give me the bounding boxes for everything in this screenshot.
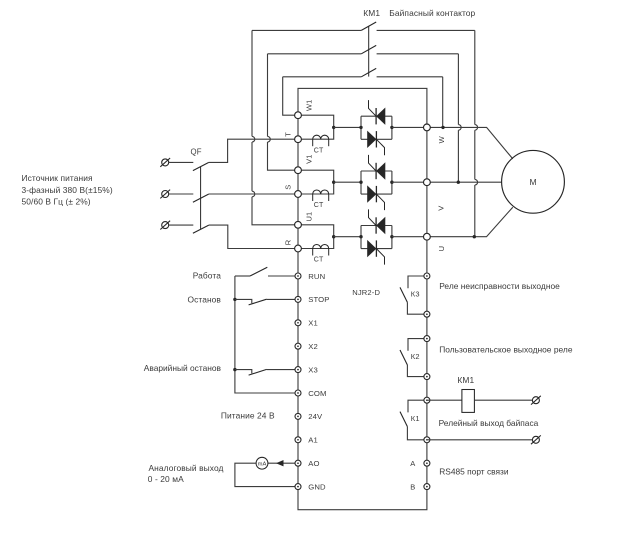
svg-text:CT: CT [314, 202, 324, 209]
thyristor (top, phase T) [375, 108, 377, 124]
wire thyristor block to output (phase S) [392, 181, 427, 183]
thyristor (bottom, phase R) [375, 240, 377, 256]
svg-text:Аварийный останов: Аварийный останов [144, 363, 222, 373]
wire KM1 bypass loop 1 top [252, 29, 475, 31]
terminal K1 bottom [424, 437, 430, 443]
svg-text:Источник питания: Источник питания [22, 173, 93, 183]
wire node to thyristor block (phase R) [334, 236, 361, 238]
junction node phase T CT join [332, 126, 335, 129]
svg-text:Аналоговый выход: Аналоговый выход [149, 463, 224, 473]
relay contact K1 [408, 400, 427, 412]
terminal K3 top [424, 273, 430, 279]
terminal V [424, 179, 431, 186]
contactor KM1 main contact 1 [361, 22, 376, 30]
wire QF pole 1 output to terminal T [209, 139, 298, 162]
terminal W1 [295, 112, 302, 119]
terminal A [424, 460, 430, 466]
svg-text:A: A [410, 459, 415, 468]
wire output U row to motor [427, 207, 513, 237]
terminal U1 [295, 221, 302, 228]
wire terminal S through CT to node [298, 182, 334, 194]
contactor KM1 main contact 3 [361, 68, 376, 76]
switch RUN (Работа), NO [235, 275, 250, 277]
wire QF pole 2 input [169, 193, 193, 195]
terminal AO [295, 460, 301, 466]
terminal 24V [295, 413, 301, 419]
terminal S [295, 191, 302, 198]
soft starter NJR2-D enclosure box [298, 88, 427, 509]
svg-text:Работа: Работа [193, 270, 221, 280]
svg-text:T: T [284, 132, 293, 137]
terminal K3 bottom [424, 311, 430, 317]
svg-text:QF: QF [191, 147, 202, 156]
thyristor (bottom, phase S) [375, 186, 377, 202]
wire KM1 coil to lug [474, 399, 532, 401]
svg-text:CT: CT [314, 257, 324, 264]
wire KM1 bypass loop 1 left edge (to terminal U1) [251, 30, 253, 136]
svg-text:3-фазный 380 В(±15%): 3-фазный 380 В(±15%) [22, 185, 113, 195]
wire terminal U1 to node (phase R) [298, 225, 334, 237]
svg-text:Питание 24 В: Питание 24 В [221, 410, 275, 420]
relay contact K3 [408, 276, 427, 288]
thyristor pair block (phase T) [361, 116, 392, 139]
terminal B [424, 484, 430, 490]
junction node phase R CT join [332, 235, 335, 238]
wire terminal R through CT to node [298, 237, 334, 249]
gate lead (top thyristor, phase R) [369, 209, 377, 225]
wire KM1 bypass loop 2 right edge (to output V node) [457, 54, 459, 125]
terminal U [424, 233, 431, 240]
svg-text:Останов: Останов [187, 294, 221, 304]
wire KM1 bypass loop 3 top [283, 76, 443, 78]
control bus wire (left) [235, 276, 298, 393]
terminal RUN [295, 273, 301, 279]
svg-text:RS485 порт связи: RS485 порт связи [439, 467, 509, 477]
contactor KM1 main contact 2 [361, 45, 376, 53]
terminal K2 bottom [424, 374, 430, 380]
svg-text:S: S [284, 185, 293, 190]
junction control bus at X3 [233, 368, 236, 371]
circuit breaker QF pole 2 blade [193, 194, 209, 202]
svg-text:24V: 24V [308, 412, 323, 421]
wire KM1 bypass loop 2 left edge (to terminal V1) [267, 54, 269, 137]
wire K1 bottom row to lug [427, 439, 533, 441]
svg-text:STOP: STOP [308, 295, 329, 304]
svg-text:U1: U1 [304, 212, 313, 222]
terminal K2 top [424, 336, 430, 342]
wire QF pole 2 output to terminal S [209, 193, 298, 195]
circuit breaker QF mechanical link [200, 167, 202, 229]
wire K1 to KM1 coil [427, 399, 462, 401]
switch X3 (Аварийный останов), NC [235, 370, 252, 374]
contactor KM1 mechanical link [368, 26, 370, 76]
svg-text:Пользовательское выходное реле: Пользовательское выходное реле [439, 345, 573, 355]
thyristor (top, phase S) [375, 163, 377, 179]
terminal COM [295, 390, 301, 396]
source cable lug L1 (Ø) [162, 159, 169, 166]
svg-text:К2: К2 [411, 352, 420, 361]
contactor coil KM1 [462, 390, 475, 413]
terminal T [295, 136, 302, 143]
svg-text:RUN: RUN [308, 272, 325, 281]
svg-text:R: R [284, 239, 293, 245]
wire thyristor block to output (phase R) [392, 236, 427, 238]
ammeter mA (analog output) [268, 462, 298, 464]
junction control bus at STOP [233, 298, 236, 301]
svg-text:К3: К3 [411, 290, 420, 299]
svg-text:50/60 В Гц (± 2%): 50/60 В Гц (± 2%) [22, 196, 91, 206]
gate lead (top thyristor, phase S) [369, 155, 377, 171]
svg-text:mA: mA [258, 461, 267, 467]
terminal X3 [295, 367, 301, 373]
switch STOP (Останов), NC [235, 299, 252, 303]
svg-text:M: M [529, 177, 536, 187]
svg-text:GND: GND [308, 482, 326, 491]
gate lead (bottom thyristor, phase S) [376, 194, 384, 210]
circuit breaker QF pole 3 blade [193, 225, 209, 233]
terminal R [295, 245, 302, 252]
svg-text:V1: V1 [304, 155, 313, 164]
wire output V row to motor [427, 181, 502, 183]
junction W bypass [441, 126, 444, 129]
circuit breaker QF pole 1 blade [193, 162, 209, 170]
svg-text:Байпасный контактор: Байпасный контактор [389, 8, 475, 18]
wire terminal T through CT to node [298, 127, 334, 139]
terminal GND [295, 484, 301, 490]
svg-text:COM: COM [308, 389, 326, 398]
gate lead (bottom thyristor, phase T) [376, 139, 384, 155]
svg-text:W1: W1 [304, 100, 313, 111]
wire node to thyristor block (phase S) [334, 181, 361, 183]
svg-text:A1: A1 [308, 436, 318, 445]
thyristor pair block (phase R) [361, 226, 392, 249]
current transformer CT (phase T) [313, 135, 329, 139]
svg-text:AO: AO [308, 459, 319, 468]
gate lead (top thyristor, phase T) [369, 100, 377, 116]
cable lug (bypass relay output, top) Ø [532, 397, 539, 404]
source cable lug L3 (Ø) [162, 222, 169, 229]
current transformer CT (phase R) [313, 245, 329, 249]
wire KM1 bypass loop 2 top [268, 53, 459, 55]
svg-text:К1: К1 [411, 414, 420, 423]
junction U bypass [473, 235, 476, 238]
svg-text:CT: CT [314, 147, 324, 154]
thyristor (top, phase R) [375, 217, 377, 233]
wire terminal V1 to node (phase S) [298, 170, 334, 182]
gate lead (bottom thyristor, phase R) [376, 249, 384, 265]
terminal X1 [295, 320, 301, 326]
svg-text:V: V [436, 206, 445, 211]
svg-text:Релейный выход байпаса: Релейный выход байпаса [439, 418, 539, 428]
terminal V1 [295, 167, 302, 174]
wire QF pole 3 input [169, 224, 193, 226]
terminal K1 top [424, 397, 430, 403]
current transformer CT (phase S) [313, 190, 329, 194]
svg-text:КМ1: КМ1 [363, 8, 380, 18]
wire terminal W1 to node (phase T) [298, 115, 334, 127]
svg-text:W: W [437, 135, 446, 143]
svg-text:B: B [410, 482, 415, 491]
wire KM1 bypass loop 1 right edge (to output U node) [474, 30, 476, 124]
thyristor (bottom, phase T) [375, 131, 377, 147]
motor M [502, 150, 565, 213]
wire KM1 bypass loop 3 right edge (to output W node) [442, 77, 444, 128]
terminal W [424, 124, 431, 131]
svg-text:X1: X1 [308, 319, 318, 328]
source cable lug L2 (Ø) [162, 191, 169, 198]
junction V bypass [457, 181, 460, 184]
svg-text:X2: X2 [308, 342, 318, 351]
wire KM1 bypass loop 3 left edge (to terminal W1) [283, 77, 298, 115]
junction node phase S CT join [332, 181, 335, 184]
terminal A1 [295, 437, 301, 443]
svg-text:Реле неисправности выходное: Реле неисправности выходное [439, 281, 560, 291]
wire QF pole 1 input [169, 161, 193, 163]
terminal STOP [295, 296, 301, 302]
wire ammeter to GND [235, 463, 298, 486]
wire thyristor block to output (phase T) [392, 126, 427, 128]
svg-text:0 - 20 мА: 0 - 20 мА [148, 474, 184, 484]
svg-text:X3: X3 [308, 365, 318, 374]
svg-text:NJR2-D: NJR2-D [352, 288, 380, 297]
wire node to thyristor block (phase T) [334, 126, 361, 128]
relay contact K2 [408, 339, 427, 351]
svg-text:U: U [437, 246, 446, 252]
wire output W row to motor [427, 127, 513, 158]
thyristor pair block (phase S) [361, 171, 392, 194]
wire QF pole 3 output to terminal R [209, 225, 298, 248]
svg-text:КМ1: КМ1 [457, 375, 474, 385]
terminal X2 [295, 343, 301, 349]
cable lug (bypass relay output, bottom) Ø [532, 436, 539, 443]
